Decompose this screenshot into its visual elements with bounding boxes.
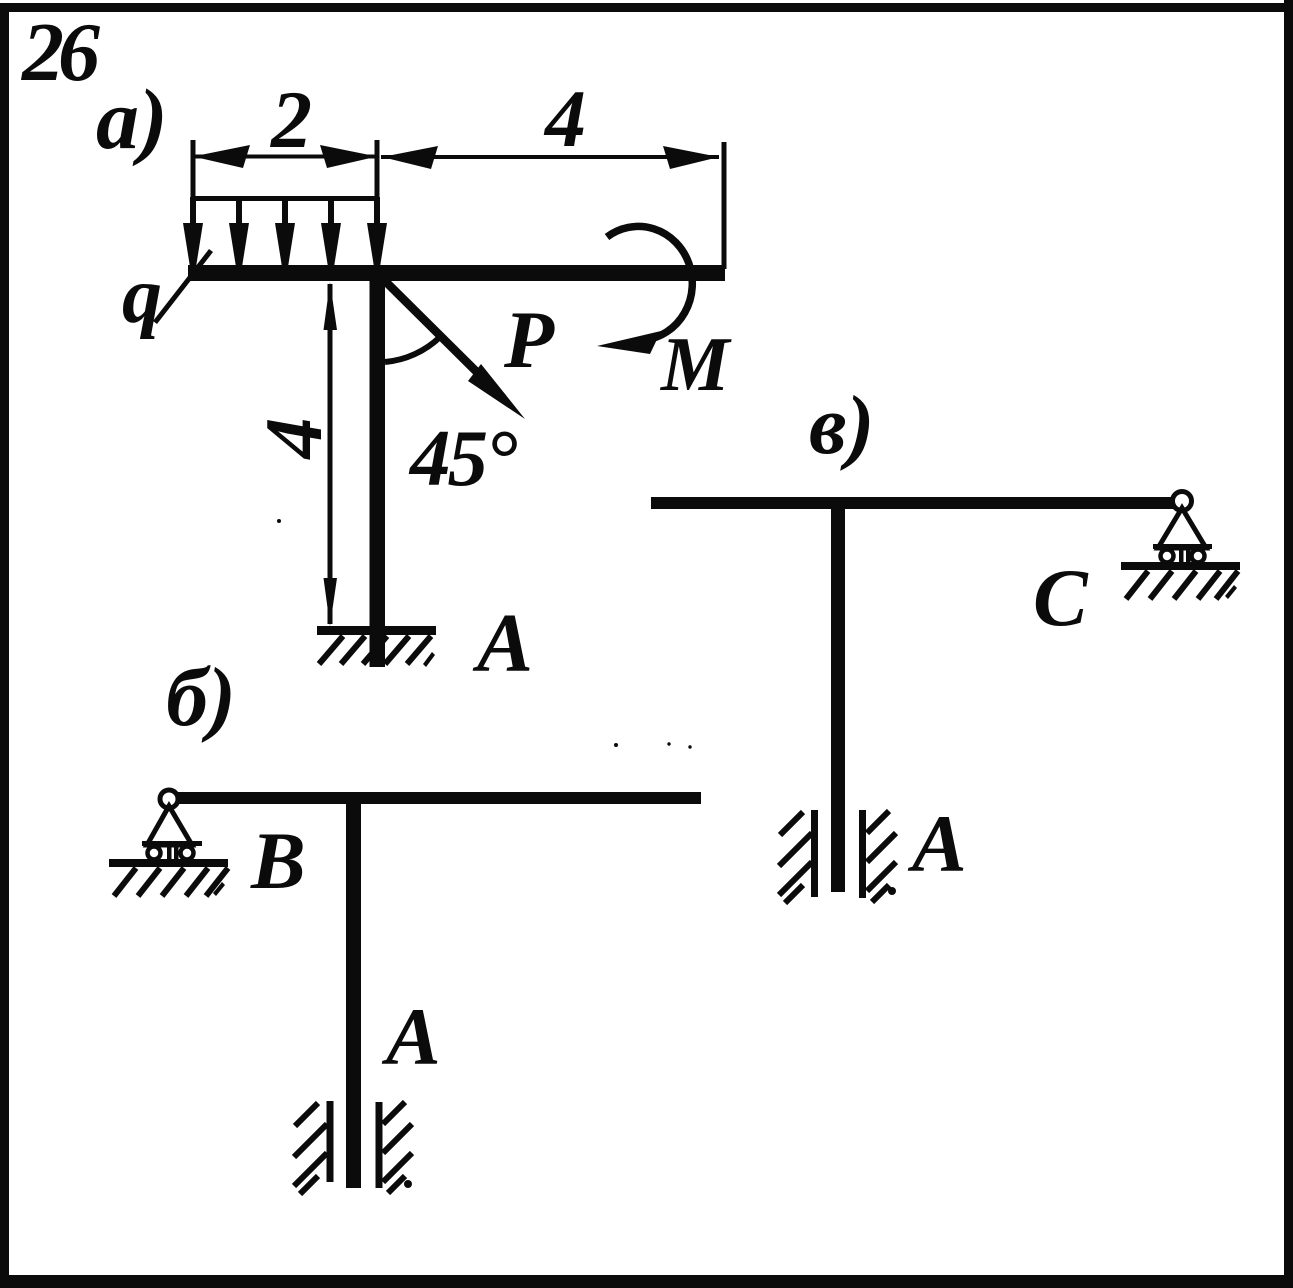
pin triangle B bbox=[147, 806, 192, 845]
beam v (horizontal member) bbox=[651, 497, 1174, 509]
ground line B bbox=[109, 859, 228, 867]
q leader line bbox=[153, 249, 213, 324]
dimension extension line left bbox=[191, 140, 196, 202]
embedment v dot bbox=[888, 887, 896, 895]
svg-text:A: A bbox=[381, 991, 441, 1082]
pin triangle C bbox=[1158, 508, 1206, 548]
embedment b left wall bbox=[327, 1101, 334, 1182]
svg-text:A: A bbox=[472, 597, 533, 690]
dimension line 2 bbox=[193, 155, 377, 159]
roller middle bars B bbox=[167, 845, 172, 861]
embedment v left hatching bbox=[779, 812, 812, 903]
vertical dim arrowhead down bbox=[324, 578, 338, 626]
svg-text:C: C bbox=[1033, 552, 1089, 643]
svg-text:P: P bbox=[503, 294, 555, 385]
embedment v right wall bbox=[859, 810, 866, 898]
beam a (horizontal member) bbox=[188, 265, 725, 281]
paper speck bbox=[688, 745, 691, 748]
45 degree arc bbox=[385, 337, 440, 362]
paper speck bbox=[614, 743, 618, 747]
svg-text:B: B bbox=[250, 815, 306, 906]
moment M arrowhead bbox=[597, 331, 661, 354]
load arrow 4 bbox=[328, 197, 334, 232]
moment M arc bbox=[607, 226, 692, 340]
dim arrowhead right (4) bbox=[663, 146, 719, 169]
ground C hatching bbox=[1126, 571, 1238, 599]
svg-text:26: 26 bbox=[20, 6, 100, 99]
pin circle B bbox=[160, 790, 178, 808]
roller left B bbox=[148, 847, 161, 860]
beam b (horizontal member) bbox=[176, 792, 701, 804]
roller middle bars C bbox=[1179, 548, 1184, 564]
vertical dim arrowhead up bbox=[324, 282, 338, 330]
svg-text:2: 2 bbox=[270, 74, 312, 165]
force P arrow shaft bbox=[375, 270, 506, 401]
support A hatching bbox=[319, 636, 431, 664]
ground B hatching bbox=[114, 868, 228, 896]
svg-text:a): a) bbox=[96, 71, 168, 167]
column a (vertical member) bbox=[370, 265, 386, 667]
force P arrowhead bbox=[468, 364, 525, 419]
distributed load top line bbox=[191, 196, 379, 201]
column b (vertical member) bbox=[346, 792, 361, 1188]
embedment b dot bbox=[404, 1180, 412, 1188]
support A hatch comma bbox=[423, 652, 435, 667]
embedment v left wall bbox=[811, 810, 818, 897]
svg-text:б): б) bbox=[166, 651, 236, 744]
ground line C bbox=[1121, 562, 1240, 570]
roller right B bbox=[181, 847, 194, 860]
ground B hatch comma bbox=[213, 882, 225, 896]
svg-text:q: q bbox=[122, 252, 162, 340]
svg-text:A: A bbox=[907, 798, 967, 889]
border frame top bbox=[0, 3, 1293, 12]
vertical dimension line 4 bbox=[328, 284, 333, 624]
dimension line 4 top bbox=[381, 155, 719, 159]
triangle base line C bbox=[1153, 544, 1212, 549]
dimension extension line middle bbox=[375, 140, 380, 268]
column v (vertical member) bbox=[831, 497, 845, 892]
paper speck bbox=[277, 519, 281, 523]
border frame bottom bbox=[0, 1275, 1293, 1288]
paper speck bbox=[667, 742, 670, 745]
load arrow 2 bbox=[236, 197, 242, 232]
dim arrowhead right (2) bbox=[320, 145, 377, 168]
dimension extension line right bbox=[722, 142, 727, 269]
svg-text:M: M bbox=[659, 321, 732, 407]
embedment b right hatching bbox=[383, 1102, 412, 1193]
load arrow 3 bbox=[282, 197, 288, 232]
triangle base line B bbox=[142, 841, 202, 846]
embedment b left hatching bbox=[294, 1103, 327, 1194]
dim arrowhead left (2) bbox=[193, 145, 250, 168]
roller right C bbox=[1192, 550, 1205, 563]
dim arrowhead left (4) bbox=[382, 146, 438, 169]
svg-text:4: 4 bbox=[543, 73, 586, 164]
embedment b right wall bbox=[376, 1102, 383, 1188]
svg-text:45°: 45° bbox=[408, 413, 517, 503]
svg-text:4: 4 bbox=[248, 418, 339, 461]
fixed support A ground line bbox=[317, 626, 436, 635]
svg-text:в): в) bbox=[809, 379, 875, 472]
border frame left bbox=[0, 3, 9, 1288]
embedment v right hatching bbox=[867, 811, 896, 902]
ground C hatch comma bbox=[1225, 585, 1237, 599]
border frame right bbox=[1284, 0, 1293, 1288]
load arrow 1 bbox=[190, 197, 196, 232]
pin circle C bbox=[1173, 492, 1192, 511]
load arrow 5 bbox=[374, 197, 380, 232]
roller left C bbox=[1161, 550, 1174, 563]
